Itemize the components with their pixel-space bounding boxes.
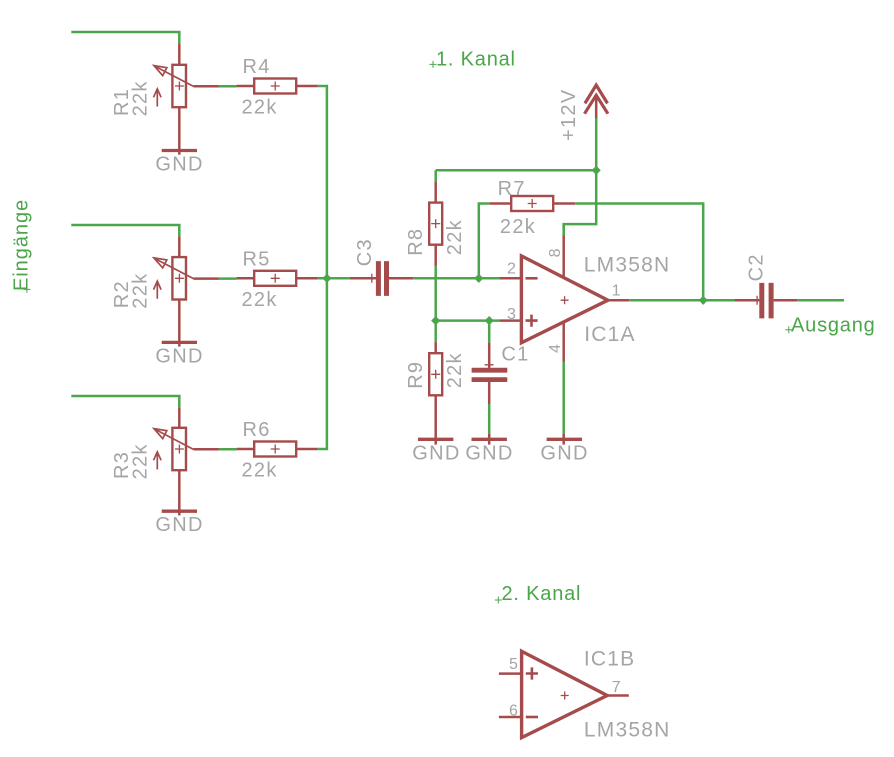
wire net pin3 row: [436, 319, 500, 322]
wire net wiper of R1: [219, 85, 237, 88]
wire net R8 to pin3 node: [434, 266, 437, 320]
wire net pin4 to GND: [562, 362, 565, 434]
svg-text:22k: 22k: [444, 219, 466, 255]
svg-text:IC1A: IC1A: [584, 323, 636, 346]
capacitor C2 plates: [762, 283, 771, 319]
svg-text:22k: 22k: [129, 443, 151, 479]
wire net input 3 (Eingang): [71, 396, 179, 407]
capacitor C1 origin cross: [485, 360, 494, 369]
svg-text:R4: R4: [243, 56, 271, 78]
svg-text:4: 4: [547, 344, 564, 353]
potentiometer R2 origin cross: [175, 274, 184, 283]
junction R8/R9/pin3: [431, 316, 440, 325]
resistor R4 right pin: [296, 85, 318, 88]
op-amp IC1A pin 4: [562, 320, 565, 362]
op-amp IC1A non-inverting mark: [526, 315, 538, 327]
svg-text:Ausgang: Ausgang: [791, 315, 876, 337]
resistor R6 left pin: [237, 448, 255, 451]
svg-text:GND: GND: [155, 345, 203, 367]
svg-text:22k: 22k: [242, 97, 278, 119]
op-amp IC1A origin cross: [561, 296, 569, 304]
capacitor C1 plates: [472, 370, 508, 379]
svg-text:LM358N: LM358N: [584, 254, 671, 277]
wire net wiper of R2: [219, 277, 237, 280]
op-amp IC1A pin 1: [608, 299, 629, 302]
resistor R6 body: [254, 442, 296, 457]
capacitor C3 left pin: [350, 277, 376, 280]
supply +12V symbol: [585, 85, 608, 103]
svg-text:R7: R7: [498, 178, 526, 200]
junction feedback/pin2: [474, 274, 483, 283]
svg-text:22k: 22k: [444, 352, 466, 388]
svg-text:GND: GND: [412, 442, 460, 464]
resistor R8 origin cross: [431, 219, 440, 228]
capacitor C2 left pin: [735, 299, 759, 302]
potentiometer R2 top pin: [178, 236, 181, 257]
ground GND under R2: [162, 341, 197, 344]
wire net pin3 to C1: [488, 321, 491, 343]
resistor R7 left pin: [490, 202, 510, 205]
ground GND under IC1A pin4: [547, 438, 582, 441]
op-amp IC1A pin 2: [499, 277, 523, 280]
svg-text:GND: GND: [155, 514, 203, 536]
resistor R8 body: [429, 203, 442, 245]
svg-text:3: 3: [507, 306, 516, 323]
capacitor C2 right pin: [774, 299, 798, 302]
potentiometer R3 bottom pin: [178, 470, 181, 515]
potentiometer R3 wiper pin: [194, 448, 219, 451]
wire net pin1 to C2: [629, 299, 735, 302]
resistor R7 origin cross: [528, 199, 537, 208]
potentiometer R1 origin cross: [175, 82, 184, 91]
potentiometer R1 adjust arrow: [156, 90, 158, 107]
op-amp IC1A pin 8: [562, 224, 565, 235]
svg-text:6: 6: [509, 702, 518, 719]
potentiometer R1 top pin: [178, 43, 181, 64]
svg-text:LM358N: LM358N: [584, 719, 671, 742]
resistor R7 body: [511, 196, 553, 211]
svg-text:C3: C3: [354, 238, 376, 266]
potentiometer R3 wiper arrow: [155, 429, 194, 449]
potentiometer R2 body: [172, 257, 186, 299]
resistor R7 right pin: [553, 202, 575, 205]
resistor R4 left pin: [237, 85, 255, 88]
svg-text:2. Kanal: 2. Kanal: [502, 583, 582, 605]
wire net wiper of R3: [219, 448, 237, 451]
resistor R9 body: [429, 353, 442, 395]
wire net Ausgang: [797, 299, 844, 302]
wire net +12V rail: [436, 118, 597, 235]
op-amp IC1B pin 6: [499, 716, 523, 719]
op-amp IC1B triangle: [522, 651, 608, 737]
wire net R5 to C3: [318, 277, 350, 280]
svg-text:22k: 22k: [129, 80, 151, 116]
op-amp IC1A triangle: [521, 256, 608, 343]
capacitor C3 origin cross: [367, 274, 376, 283]
resistor R4 origin cross: [271, 82, 280, 91]
svg-text:C1: C1: [501, 344, 529, 366]
svg-text:IC1B: IC1B: [584, 648, 636, 671]
ground GND under R9: [418, 438, 453, 441]
potentiometer R3 adjust arrow: [156, 453, 158, 470]
capacitor C3 right pin: [389, 277, 413, 280]
resistor R8 bottom pin: [434, 245, 437, 267]
svg-text:GND: GND: [155, 154, 203, 176]
wire net input 1 (Eingang): [71, 32, 179, 43]
svg-text:22k: 22k: [500, 216, 536, 238]
potentiometer R3 top pin: [178, 407, 181, 427]
capacitor C1 bottom pin: [488, 382, 491, 404]
wire net C3 to IC1A pin 2: [413, 277, 499, 280]
resistor R5 right pin: [296, 277, 318, 280]
svg-text:+12V: +12V: [558, 89, 580, 141]
wire net R7 to output: [575, 204, 703, 301]
svg-text:GND: GND: [465, 442, 513, 464]
resistor R8 top pin: [434, 170, 437, 181]
capacitor C1 top pin: [488, 343, 491, 368]
svg-text:GND: GND: [540, 442, 588, 464]
op-amp IC1B origin cross: [561, 692, 569, 700]
svg-text:22k: 22k: [242, 460, 278, 482]
junction bus/R5/C3: [322, 274, 331, 283]
wire net C1 to GND: [488, 404, 491, 434]
potentiometer R1 bottom pin: [178, 107, 181, 155]
svg-text:5: 5: [509, 656, 518, 673]
op-amp IC1B pin 5: [499, 672, 523, 675]
svg-text:R6: R6: [243, 419, 271, 441]
potentiometer R2 wiper arrow: [155, 259, 194, 279]
resistor R6 origin cross: [271, 445, 280, 454]
wire net summing bus: [318, 86, 327, 449]
potentiometer R2 bottom pin: [178, 300, 181, 347]
ground GND under C1: [472, 438, 507, 441]
svg-text:R5: R5: [243, 248, 271, 270]
svg-text:C2: C2: [746, 253, 768, 281]
junction +12V rail: [592, 166, 601, 175]
resistor R5 body: [254, 271, 296, 286]
resistor R9 top pin: [434, 342, 437, 353]
wire net pin3 to R9: [434, 321, 437, 342]
ground GND under R3: [162, 510, 197, 513]
potentiometer R2 adjust arrow: [156, 282, 158, 299]
svg-text:1: 1: [612, 283, 621, 300]
svg-text:R9: R9: [405, 361, 427, 389]
resistor R4 body: [254, 79, 296, 94]
svg-text:7: 7: [612, 679, 621, 696]
resistor R9 origin cross: [431, 370, 440, 379]
junction C1/pin3: [485, 316, 494, 325]
resistor R6 right pin: [296, 448, 318, 451]
capacitor C2 origin cross: [753, 296, 762, 305]
capacitor C3 plates: [378, 261, 386, 296]
op-amp IC1A pin 3: [499, 319, 523, 322]
potentiometer R1 wiper arrow: [155, 66, 194, 86]
resistor R5 left pin: [237, 277, 255, 280]
potentiometer R1 body: [172, 65, 186, 107]
op-amp IC1B pin 7: [607, 694, 629, 697]
op-amp IC1B non-inverting mark: [526, 667, 538, 679]
wire net input 2 (Eingang): [71, 225, 179, 236]
resistor R9 bottom pin: [434, 395, 437, 444]
svg-text:2: 2: [507, 261, 516, 278]
svg-text:8: 8: [547, 248, 564, 257]
wire net feedback drop from R7: [479, 204, 490, 279]
svg-text:Eingänge: Eingänge: [11, 199, 33, 291]
op-amp IC1A inverting mark: [526, 277, 538, 280]
potentiometer R3 body: [172, 428, 186, 470]
svg-text:22k: 22k: [129, 273, 151, 309]
potentiometer R3 origin cross: [175, 445, 184, 454]
junction output/R7: [699, 296, 708, 305]
ground GND under R1: [162, 149, 197, 152]
svg-text:R8: R8: [405, 228, 427, 256]
svg-text:1. Kanal: 1. Kanal: [436, 48, 516, 70]
potentiometer R1 wiper pin: [194, 85, 219, 88]
op-amp IC1B inverting mark: [526, 716, 538, 719]
svg-text:22k: 22k: [242, 289, 278, 311]
resistor R5 origin cross: [271, 274, 280, 283]
potentiometer R2 wiper pin: [194, 277, 219, 280]
